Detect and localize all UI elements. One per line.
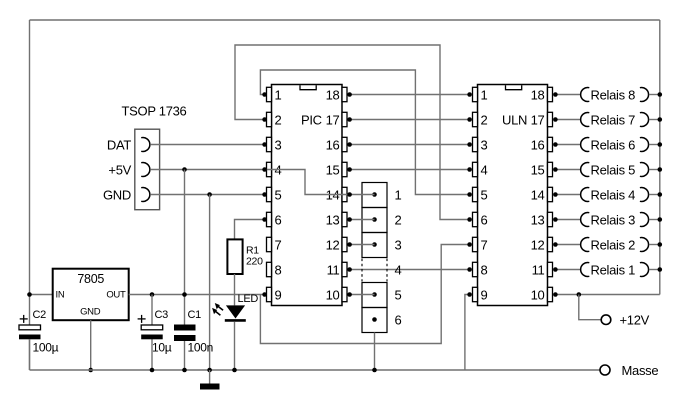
junction PIC pin 10 xyxy=(347,292,352,297)
junction +12V bus at Relais 5 xyxy=(658,167,663,172)
relay contact right Relais 4 xyxy=(640,188,649,202)
wire PIC pin 10 to jumper 5 xyxy=(350,294,375,296)
relay contact left Relais 8 xyxy=(581,88,590,102)
svg-text:9: 9 xyxy=(275,287,282,302)
junction PIC pin 14 xyxy=(347,192,352,197)
relay contact right Relais 8 xyxy=(640,88,649,102)
svg-text:Relais 7: Relais 7 xyxy=(591,112,636,127)
jumper pin dot position 3 xyxy=(372,242,377,247)
svg-text:1: 1 xyxy=(275,87,282,102)
junction +12V bus at Relais 8 xyxy=(658,92,663,97)
label jumper position 3 xyxy=(395,237,402,252)
relay contact left Relais 1 xyxy=(581,263,590,277)
svg-text:DAT: DAT xyxy=(107,137,131,152)
label TSOP 1736 xyxy=(122,104,187,119)
junction PIC pin 11 xyxy=(347,267,352,272)
svg-text:4: 4 xyxy=(395,262,402,277)
svg-text:4: 4 xyxy=(481,162,488,177)
wire PIC pin 2 to ULN pin 6 loop xyxy=(235,45,470,220)
wire +12V left frame vertical xyxy=(29,20,31,325)
svg-text:6: 6 xyxy=(481,212,488,227)
wire PIC pin 1 to ULN pin 5 loop xyxy=(260,70,469,195)
relay contact right Relais 5 xyxy=(640,163,649,177)
jumper pin dot position 6 xyxy=(372,317,377,322)
svg-text:+5V: +5V xyxy=(108,162,131,177)
label jumper position 6 xyxy=(395,312,402,327)
label Relais 1 xyxy=(591,262,636,277)
IC U1 PIC 18-pin body with pin numbers xyxy=(267,85,348,306)
junction PIC pin 15 xyxy=(347,167,352,172)
relay contact left Relais 7 xyxy=(581,113,590,127)
wire Relais 5 to +12V bus xyxy=(649,169,660,171)
junction 5V rail at C3 xyxy=(150,292,155,297)
jumper pin dot position 1 xyxy=(372,192,377,197)
LED D1 with emission arrows xyxy=(212,293,258,320)
svg-text:Relais 2: Relais 2 xyxy=(591,237,636,252)
junction Masse at 7805 GND xyxy=(88,368,93,373)
wire 5V rail 7805 OUT to PIC pin 9 xyxy=(129,294,265,296)
wire ULN pin 11 to Relais 1 contact xyxy=(555,269,580,271)
junction ULN pin 10 xyxy=(553,292,558,297)
svg-text:C3: C3 xyxy=(155,309,169,321)
jumper pin dot position 5 xyxy=(372,292,377,297)
junction PIC pin 1 xyxy=(262,92,267,97)
svg-text:3: 3 xyxy=(395,237,402,252)
junction PIC pin 12 xyxy=(347,242,352,247)
svg-text:18: 18 xyxy=(531,87,545,102)
junction +12V at terminal branch xyxy=(577,292,582,297)
IC U2 ULN 18-pin body with pin numbers xyxy=(473,85,553,306)
relay contact right Relais 1 xyxy=(640,263,649,277)
svg-text:11: 11 xyxy=(532,262,545,277)
label +12V xyxy=(620,313,650,328)
svg-text:Relais 3: Relais 3 xyxy=(591,212,636,227)
svg-text:18: 18 xyxy=(326,87,340,102)
junction ULN pin 15 xyxy=(553,167,558,172)
svg-text:LED: LED xyxy=(238,293,259,305)
junction ULN pin 8 xyxy=(467,267,472,272)
relay contact right Relais 6 xyxy=(640,138,649,152)
wire Masse line xyxy=(30,369,601,371)
label DAT xyxy=(107,137,131,152)
svg-text:Relais 1: Relais 1 xyxy=(591,262,636,277)
junction +12V bus at Relais 4 xyxy=(658,192,663,197)
label +5V xyxy=(108,162,131,177)
svg-text:5: 5 xyxy=(395,287,402,302)
relay contact left Relais 6 xyxy=(581,138,590,152)
wire 7805 GND to Masse line xyxy=(90,320,92,370)
relay contact right Relais 2 xyxy=(640,238,649,252)
relay contact left Relais 4 xyxy=(581,188,590,202)
svg-text:1: 1 xyxy=(481,87,488,102)
relay contact left Relais 3 xyxy=(581,213,590,227)
svg-text:100µ: 100µ xyxy=(33,341,59,355)
junction PIC pin 18 xyxy=(347,92,352,97)
label Relais 6 xyxy=(591,137,636,152)
svg-text:10: 10 xyxy=(326,287,340,302)
connector TSOP receiver 3-pin socket outline xyxy=(135,129,160,210)
wire DAT net TSOP to PIC pin 3 xyxy=(150,144,264,146)
svg-text:Masse: Masse xyxy=(622,363,659,378)
connector contact +5V xyxy=(141,163,150,177)
terminal Masse xyxy=(600,365,610,375)
wire ULN pin 10 to relay bus xyxy=(555,294,659,296)
label Relais 4 xyxy=(591,187,636,202)
wire PIC pin 15 to ULN pin 4 xyxy=(350,169,470,171)
junction ULN pin 1 xyxy=(467,92,472,97)
label Relais 3 xyxy=(591,212,636,227)
wire Relais 4 to +12V bus xyxy=(649,194,660,196)
wire 5V rail to ULN pin 7 xyxy=(260,245,469,344)
connector contact GND xyxy=(141,188,150,202)
relay contact left Relais 5 xyxy=(581,163,590,177)
wire Relais 2 to +12V bus xyxy=(649,244,660,246)
relay contact right Relais 3 xyxy=(640,213,649,227)
junction ULN pin 4 xyxy=(467,167,472,172)
svg-text:C1: C1 xyxy=(188,309,202,321)
junction GND net at ground drop xyxy=(207,192,212,197)
wire branch to +12V terminal xyxy=(579,295,601,320)
junction Masse at C1 xyxy=(182,368,187,373)
junction PIC pin 2 xyxy=(262,117,267,122)
wire PIC pin 14 to jumper 1 xyxy=(350,194,375,196)
junction ULN pin 12 xyxy=(553,242,558,247)
junction +12V bus at Relais 3 xyxy=(658,217,663,222)
junction ULN pin 6 xyxy=(467,217,472,222)
svg-text:17: 17 xyxy=(531,112,545,127)
svg-text:6: 6 xyxy=(275,212,282,227)
wire jumper 6 down to Masse line xyxy=(374,333,376,371)
svg-text:10: 10 xyxy=(531,287,545,302)
connector contact DAT xyxy=(141,138,150,152)
wire R1 to LED anode xyxy=(234,274,236,305)
junction ULN pin 9 xyxy=(467,292,472,297)
wire ULN pin 16 to Relais 6 contact xyxy=(555,144,580,146)
svg-text:7805: 7805 xyxy=(77,272,104,286)
junction ULN pin 11 xyxy=(553,267,558,272)
wire Relais 1 to +12V bus xyxy=(649,269,660,271)
relay contact left Relais 2 xyxy=(581,238,590,252)
svg-text:2: 2 xyxy=(481,112,488,127)
wire ULN pin 17 to Relais 7 contact xyxy=(555,119,580,121)
capacitor C3 10u electrolytic xyxy=(138,295,172,371)
svg-text:15: 15 xyxy=(531,162,545,177)
svg-text:C2: C2 xyxy=(33,309,47,321)
svg-text:14: 14 xyxy=(531,187,545,202)
svg-text:2: 2 xyxy=(275,112,282,127)
wire C2 bottom corner xyxy=(29,339,31,370)
wire Relais 8 to +12V bus xyxy=(649,94,660,96)
svg-text:9: 9 xyxy=(481,287,488,302)
wire GND net TSOP to PIC pin 5 xyxy=(150,194,264,196)
junction ULN pin 3 xyxy=(467,142,472,147)
svg-text:GND: GND xyxy=(103,187,131,202)
svg-text:Relais 5: Relais 5 xyxy=(591,162,636,177)
wire +12V right frame / relay bus xyxy=(659,20,661,295)
svg-text:16: 16 xyxy=(326,137,340,152)
wire Relais 3 to +12V bus xyxy=(649,219,660,221)
label jumper position 2 xyxy=(395,212,402,227)
svg-text:TSOP 1736: TSOP 1736 xyxy=(122,104,187,119)
junction PIC pin 9 xyxy=(262,292,267,297)
junction PIC pin 4 xyxy=(262,167,267,172)
junction PIC pin 17 xyxy=(347,117,352,122)
junction PIC pin 3 xyxy=(262,142,267,147)
svg-text:8: 8 xyxy=(481,262,488,277)
wire ULN pin 18 to Relais 8 contact xyxy=(555,94,580,96)
label jumper position 1 xyxy=(395,187,402,202)
label Relais 7 xyxy=(591,112,636,127)
junction ULN pin 7 xyxy=(467,242,472,247)
voltage regulator U3 7805 xyxy=(53,269,129,321)
svg-text:100n: 100n xyxy=(188,341,214,355)
wire +12V top frame xyxy=(30,19,660,21)
junction 5V rail at C1 xyxy=(182,292,187,297)
svg-text:3: 3 xyxy=(481,137,488,152)
svg-text:16: 16 xyxy=(531,137,545,152)
wire PIC pin 11 to ULN pin 8 through jumper 4 xyxy=(350,269,470,271)
svg-text:5: 5 xyxy=(481,187,488,202)
svg-text:12: 12 xyxy=(326,237,340,252)
wire PIC pin 4 to PIC pin 14 routed through body xyxy=(265,170,350,195)
wire +5V branch down to 5V rail through C1 xyxy=(184,170,186,325)
resistor R1 220 xyxy=(227,239,263,274)
svg-text:15: 15 xyxy=(326,162,340,177)
connector jumper block JP1 positions 1-6 xyxy=(362,183,387,333)
wire PIC pin 12 to jumper 3 xyxy=(350,244,375,246)
jumper pin dot position 2 xyxy=(372,217,377,222)
junction ULN pin 16 xyxy=(553,142,558,147)
svg-text:+12V: +12V xyxy=(620,313,650,328)
wire PIC pin 16 to ULN pin 3 xyxy=(350,144,470,146)
wire ground stub xyxy=(209,370,211,384)
label jumper position 5 xyxy=(395,287,402,302)
svg-text:3: 3 xyxy=(275,137,282,152)
svg-text:Relais 8: Relais 8 xyxy=(591,87,636,102)
wire +12V to 7805 IN xyxy=(30,294,53,296)
relay contact right Relais 7 xyxy=(640,113,649,127)
wire LED cathode to Masse line xyxy=(234,322,236,370)
svg-text:10µ: 10µ xyxy=(152,341,172,355)
svg-text:Relais 4: Relais 4 xyxy=(591,187,636,202)
svg-text:1: 1 xyxy=(395,187,402,202)
wire +5V net TSOP to PIC pin 4 xyxy=(150,169,264,171)
junction PIC pin 5 xyxy=(262,192,267,197)
wire PIC pin 17 to ULN pin 2 xyxy=(350,119,470,121)
svg-text:8: 8 xyxy=(275,262,282,277)
wire PIC pin 18 to ULN pin 1 xyxy=(350,94,470,96)
wire ULN pin 9 to Masse line xyxy=(465,295,470,371)
ground symbol xyxy=(200,384,220,390)
wire ULN pin 12 to Relais 2 contact xyxy=(555,244,580,246)
svg-text:220: 220 xyxy=(246,256,263,268)
capacitor C2 100u electrolytic xyxy=(19,309,59,370)
junction +12V bus at Relais 6 xyxy=(658,142,663,147)
junction +5V net at C1 branch xyxy=(182,167,187,172)
junction PIC pin 6 xyxy=(262,217,267,222)
junction +12V at 7805 IN branch xyxy=(27,292,32,297)
svg-text:5: 5 xyxy=(275,187,282,202)
svg-text:Relais 6: Relais 6 xyxy=(591,137,636,152)
junction Masse at C3 xyxy=(150,368,155,373)
svg-text:11: 11 xyxy=(327,262,340,277)
junction Masse at jumper 6 xyxy=(372,368,377,373)
label Masse xyxy=(622,363,659,378)
svg-text:ULN: ULN xyxy=(502,112,527,127)
svg-text:13: 13 xyxy=(326,212,340,227)
junction ULN pin 18 xyxy=(553,92,558,97)
junction Masse at LED xyxy=(232,368,237,373)
svg-text:12: 12 xyxy=(531,237,545,252)
wire Relais 6 to +12V bus xyxy=(649,144,660,146)
junction ULN pin 13 xyxy=(553,217,558,222)
capacitor C1 100n xyxy=(174,309,213,370)
junction PIC pin 16 xyxy=(347,142,352,147)
wire PIC pin 13 to jumper 2 xyxy=(350,219,375,221)
junction ULN pin 5 xyxy=(467,192,472,197)
label Relais 2 xyxy=(591,237,636,252)
svg-text:6: 6 xyxy=(395,312,402,327)
wire GND branch down to Masse line xyxy=(209,195,211,371)
junction +12V bus at Relais 2 xyxy=(658,242,663,247)
wire PIC pin 6 to R1 xyxy=(235,220,265,240)
terminal +12V xyxy=(601,315,611,325)
junction Masse at ground symbol xyxy=(207,368,212,373)
wire ULN pin 14 to Relais 4 contact xyxy=(555,194,580,196)
label Relais 8 xyxy=(591,87,636,102)
junction PIC pin 13 xyxy=(347,217,352,222)
wire ULN pin 13 to Relais 3 contact xyxy=(555,219,580,221)
label jumper position 4 xyxy=(395,262,402,277)
svg-text:13: 13 xyxy=(531,212,545,227)
svg-text:2: 2 xyxy=(395,212,402,227)
svg-text:7: 7 xyxy=(481,237,488,252)
label Relais 5 xyxy=(591,162,636,177)
junction +12V bus at Relais 7 xyxy=(658,117,663,122)
junction +12V bus at Relais 1 xyxy=(658,267,663,272)
svg-text:IN: IN xyxy=(56,290,65,301)
svg-text:17: 17 xyxy=(326,112,340,127)
label GND xyxy=(103,187,131,202)
junction ULN pin 2 xyxy=(467,117,472,122)
junction ULN pin 17 xyxy=(553,117,558,122)
svg-text:OUT: OUT xyxy=(106,290,126,301)
svg-text:7: 7 xyxy=(275,237,282,252)
svg-text:PIC: PIC xyxy=(301,112,322,127)
svg-text:GND: GND xyxy=(80,306,101,317)
wire Relais 7 to +12V bus xyxy=(649,119,660,121)
wire ULN pin 15 to Relais 5 contact xyxy=(555,169,580,171)
junction ULN pin 14 xyxy=(553,192,558,197)
